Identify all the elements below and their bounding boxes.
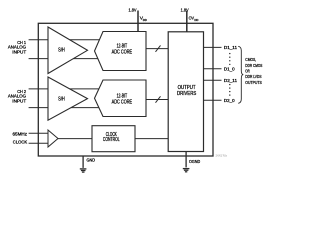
wire output D1_0 [204, 68, 222, 70]
pin label D2_11 [224, 78, 238, 83]
wire CH2 input - [29, 107, 101, 109]
bus slash ADC1 [156, 45, 161, 51]
GND stem [82, 156, 84, 168]
svg-text:DD: DD [143, 18, 148, 22]
label CH2 analog input [8, 89, 27, 104]
svg-text:OUTPUTS: OUTPUTS [245, 80, 262, 85]
pin label D1_0 [224, 67, 235, 72]
dots D1 group [229, 53, 230, 65]
S/H amp 2 [48, 77, 88, 120]
S/H amp 1 [48, 27, 88, 74]
svg-text:INPUT: INPUT [12, 99, 26, 104]
svg-text:65MHz: 65MHz [13, 132, 28, 137]
label OGND [189, 159, 200, 164]
OGND stem [185, 152, 187, 168]
label 1.8V OVDD [181, 7, 189, 12]
ground symbol OGND [183, 169, 190, 172]
wire ADC1 data bus [146, 48, 168, 50]
svg-text:D1_11: D1_11 [224, 45, 238, 50]
label output modes [245, 57, 262, 85]
wire clock buffer to clock control [58, 138, 92, 140]
pin label OVDD [189, 16, 199, 22]
pin label D2_0 [224, 98, 235, 103]
svg-text:DRIVERS: DRIVERS [177, 91, 197, 97]
svg-text:D2_11: D2_11 [224, 78, 238, 83]
svg-text:1.8V: 1.8V [129, 7, 137, 12]
bus slash ADC2 [156, 96, 161, 102]
wire clock input + [29, 132, 48, 134]
label 1.8V VDD [129, 7, 137, 12]
OVDD supply stem [186, 11, 188, 32]
svg-text:ADC CORE: ADC CORE [112, 50, 133, 56]
label GND [87, 158, 96, 163]
brace outputs [238, 46, 243, 103]
wire CH1 input - [29, 58, 101, 60]
wire clock input - [29, 142, 48, 144]
wire CH2 input + [29, 88, 101, 90]
svg-text:S/H: S/H [58, 97, 65, 103]
chip boundary [38, 23, 213, 156]
svg-text:INPUT: INPUT [12, 49, 26, 54]
svg-text:OR: OR [245, 69, 249, 74]
clock buffer [48, 130, 58, 147]
figure id [216, 155, 228, 158]
svg-text:CMOS,: CMOS, [245, 57, 256, 62]
clock control U1 [92, 126, 135, 152]
wire ADC2 data bus [146, 99, 168, 101]
wire output D1_11 [204, 46, 222, 48]
svg-text:CONTROL: CONTROL [103, 137, 120, 143]
svg-text:GND: GND [87, 158, 96, 163]
label 65MHz clock [13, 132, 28, 145]
svg-text:S/H: S/H [58, 47, 65, 53]
pin label D1_11 [224, 45, 238, 50]
svg-text:CLOCK: CLOCK [13, 140, 27, 145]
svg-text:DDR LVDS: DDR LVDS [245, 74, 261, 79]
VDD supply stem [137, 11, 139, 32]
svg-text:D1_0: D1_0 [224, 67, 235, 72]
wire CH1 input + [29, 39, 101, 41]
svg-text:DDR CMOS: DDR CMOS [245, 63, 262, 68]
label CH1 analog input [8, 40, 27, 54]
pin label VDD [140, 16, 148, 22]
svg-text:1.8V: 1.8V [181, 7, 189, 12]
output drivers [168, 32, 203, 152]
wire output D2_0 [204, 99, 222, 101]
svg-text:21434512 TA01a: 21434512 TA01a [216, 155, 228, 158]
svg-text:OGND: OGND [189, 159, 200, 164]
svg-text:DD: DD [194, 18, 199, 22]
ADC core 2 [95, 80, 147, 117]
dots D2 group [229, 84, 230, 96]
ADC core 1 [95, 32, 147, 71]
wire output D2_11 [204, 79, 222, 81]
wire clock control to output drivers [135, 138, 168, 140]
svg-text:ADC CORE: ADC CORE [112, 100, 133, 106]
svg-text:D2_0: D2_0 [224, 98, 235, 103]
ground symbol GND [80, 169, 87, 172]
